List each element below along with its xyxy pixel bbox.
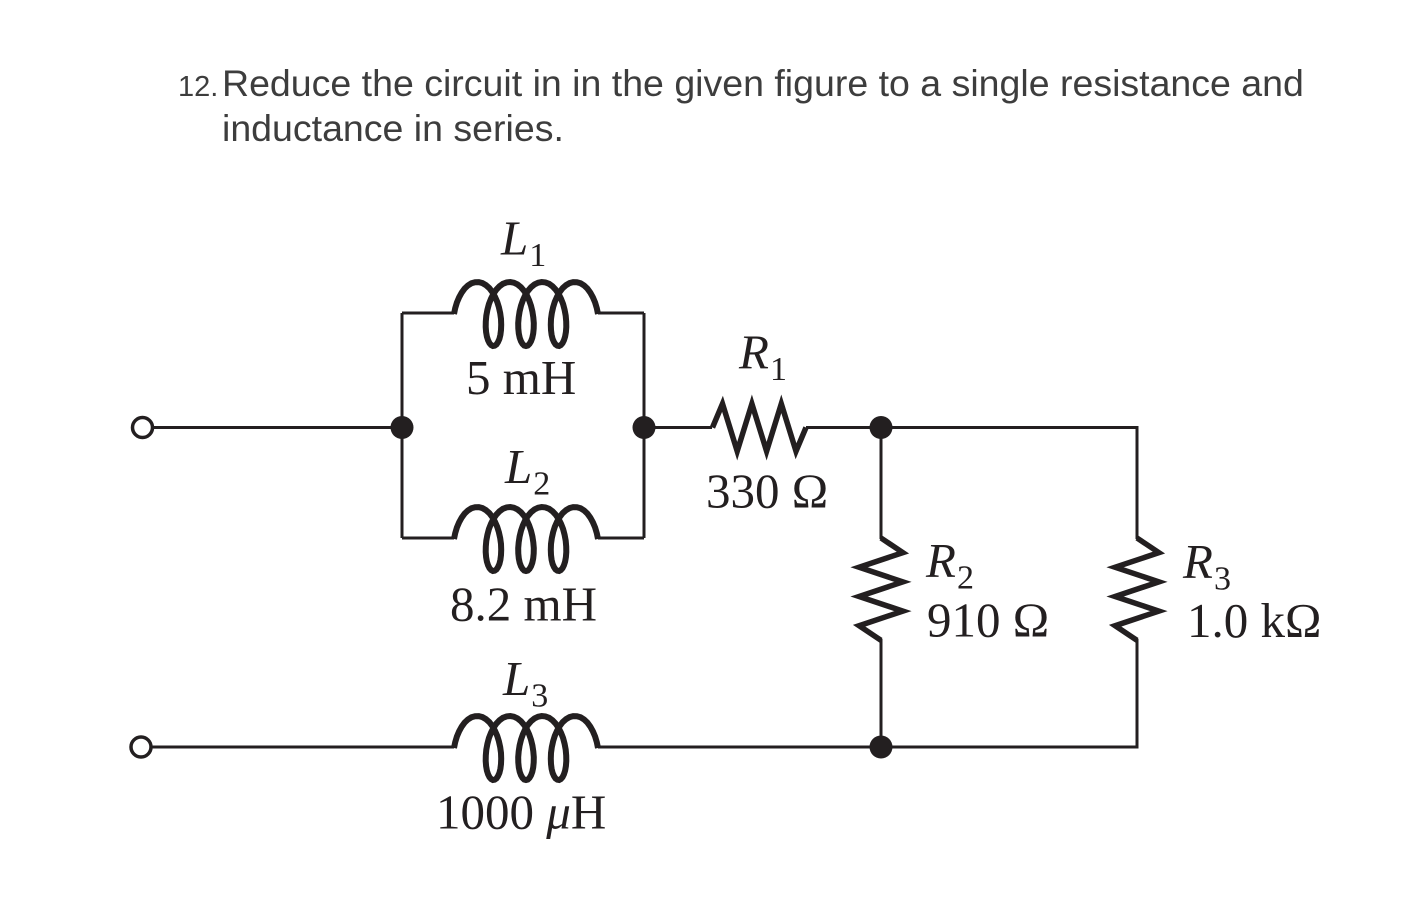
svg-text:inductance in series.: inductance in series.: [222, 107, 564, 149]
svg-text:910 Ω: 910 Ω: [927, 593, 1049, 648]
svg-text:330 Ω: 330 Ω: [706, 464, 828, 519]
svg-text:8.2 mH: 8.2 mH: [450, 577, 597, 632]
svg-text:1000 μH: 1000 μH: [436, 785, 606, 840]
svg-text:12.: 12.: [178, 71, 218, 103]
svg-text:5 mH: 5 mH: [466, 350, 576, 405]
svg-text:Reduce the circuit in in the g: Reduce the circuit in in the given figur…: [222, 62, 1304, 104]
svg-text:1.0 kΩ: 1.0 kΩ: [1187, 593, 1321, 648]
